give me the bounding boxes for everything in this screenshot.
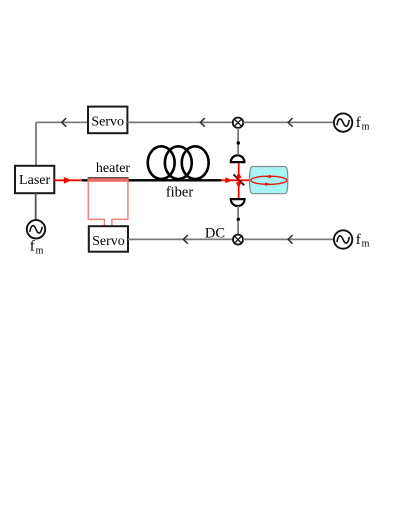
arrowhead on mixer1-osc1 wire (pointing left)	[288, 118, 293, 127]
label f_m top right	[356, 115, 370, 133]
svg-text:heater: heater	[96, 161, 131, 176]
mixer M2	[233, 235, 243, 245]
box Laser	[15, 166, 54, 193]
wire: mixer1 to oscillator1	[243, 121, 334, 123]
label heater	[96, 161, 131, 176]
beamsplitter BS (diagonal)	[234, 174, 245, 185]
oscillator OSC2 (f_m bottom right)	[334, 230, 352, 248]
beam arrowhead down	[236, 182, 242, 188]
oscillator OSC3 (f_m below laser)	[27, 220, 45, 238]
fiber coil loop2	[165, 146, 192, 179]
label f_m bottom right	[356, 232, 370, 250]
beam arrowhead up	[236, 172, 242, 178]
cavity (cyan barrel)	[250, 167, 288, 194]
beam fiber-to-beamsplitter (red)	[221, 179, 239, 181]
oscillator OSC1 (f_m top right)	[334, 113, 352, 131]
arrowhead on wire laser-servo (pointing left)	[62, 118, 66, 127]
small arrow dot on PD2-mixer2 wire	[237, 218, 240, 221]
wire: Servo1 to mixer1	[127, 121, 232, 123]
box Servo1	[88, 107, 127, 134]
fiber (black line)	[82, 179, 222, 181]
box Servo2	[89, 226, 128, 252]
circulating beam in cavity (red ellipse)	[251, 175, 287, 186]
beam arrowhead after laser	[64, 177, 72, 184]
wire: Laser down to oscillator3	[35, 193, 37, 220]
svg-text:m: m	[362, 122, 370, 133]
svg-text:Servo: Servo	[91, 115, 124, 130]
label fiber	[166, 184, 194, 200]
beam beamsplitter to cavity (red)	[239, 179, 252, 181]
beam up to detector PD1 (red)	[238, 162, 240, 180]
label DC	[205, 226, 225, 242]
svg-text:fiber: fiber	[166, 184, 194, 200]
svg-text:m: m	[36, 245, 44, 256]
wire mixer2 to oscillator2	[243, 238, 334, 240]
arrowhead on mixer2-osc2 wire (pointing left)	[288, 235, 293, 244]
fiber coil loop1	[148, 146, 175, 179]
wire PD2 down to mixer2	[237, 206, 239, 235]
beam arrowhead before beamsplitter	[225, 177, 232, 183]
heater wires to Servo2	[88, 182, 128, 226]
wire Servo2 to mixer2 (DC line)	[128, 238, 233, 240]
fiber coil loop3	[182, 146, 209, 179]
photodetector PD1 (dome up)	[231, 155, 245, 162]
arrowhead on DC wire (pointing left)	[183, 235, 188, 244]
svg-text:DC: DC	[205, 226, 225, 242]
beam down to detector PD2 (red)	[238, 180, 240, 199]
label f_m below laser	[30, 239, 44, 257]
small arrow dot on mixer1-PD1 wire	[237, 141, 240, 144]
photodetector PD2 (dome down)	[231, 199, 245, 206]
wire: top rail from corner to Servo1	[36, 121, 88, 123]
svg-text:Servo: Servo	[92, 234, 125, 249]
arrowhead on servo1-mixer1 wire (pointing left)	[200, 118, 205, 127]
wire: vertical corner down to Laser	[35, 122, 37, 166]
svg-text:f: f	[356, 232, 361, 248]
svg-text:f: f	[356, 115, 361, 131]
svg-text:Laser: Laser	[19, 173, 50, 188]
laser output beam (red)	[54, 179, 84, 181]
svg-text:m: m	[362, 239, 370, 250]
wire mixer1 down to PD1	[237, 128, 239, 155]
mixer M1	[233, 118, 243, 128]
svg-text:f: f	[30, 239, 35, 255]
heater element (salmon bar on fiber)	[88, 178, 129, 182]
